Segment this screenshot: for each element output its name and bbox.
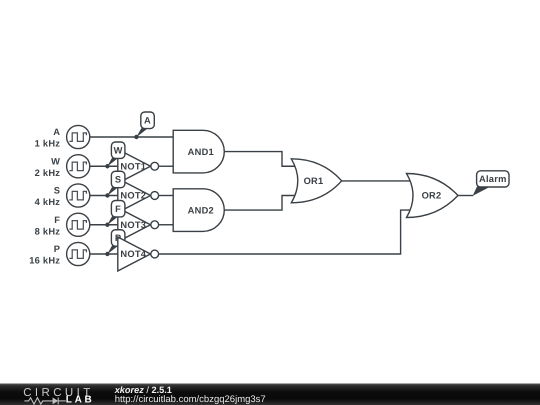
svg-text:S: S (115, 175, 121, 185)
svg-text:A: A (144, 116, 151, 126)
bubble NOT3 (151, 221, 159, 229)
wire P row (90, 253, 118, 255)
wire NOT3 out (159, 224, 174, 226)
svg-text:OR2: OR2 (422, 191, 442, 201)
svg-text:W: W (51, 156, 60, 166)
svg-text:NOT3: NOT3 (120, 220, 146, 230)
svg-text:S: S (54, 186, 60, 196)
flag connector tail Alarm (473, 187, 491, 196)
wire NOT1 out (159, 165, 174, 167)
svg-text:NOT1: NOT1 (120, 161, 146, 171)
junction dot node P (105, 252, 109, 256)
not-gate NOT2 triangle (118, 179, 151, 213)
svg-text:1 kHz: 1 kHz (35, 139, 61, 149)
bubble NOT2 (151, 192, 159, 200)
source V_P circle (67, 242, 90, 265)
svg-text:http://circuitlab.com/cbzgq26j: http://circuitlab.com/cbzgq26jmg3s7 (115, 394, 266, 405)
svg-text:F: F (115, 204, 121, 214)
svg-text:NOT4: NOT4 (120, 249, 146, 259)
waveform glyph S (69, 191, 86, 200)
and-gate AND2 (173, 189, 224, 232)
flag P box (111, 230, 125, 246)
flag A box (141, 112, 155, 129)
svg-text:16 kHz: 16 kHz (29, 256, 60, 266)
junction dot node A (134, 135, 138, 139)
flag W box (111, 142, 125, 158)
wire AND1 out to OR1 (225, 152, 298, 167)
svg-text:F: F (54, 215, 60, 225)
waveform glyph P (69, 250, 86, 259)
flag connector tail W (107, 158, 118, 167)
svg-text:P: P (54, 244, 60, 254)
footer bar (0, 384, 540, 405)
svg-text:NOT2: NOT2 (120, 191, 146, 201)
not-gate NOT4 triangle (118, 237, 151, 271)
svg-text:2 kHz: 2 kHz (35, 168, 61, 178)
wire AND2 out to OR1 (225, 196, 298, 211)
svg-text:AND2: AND2 (188, 205, 214, 215)
waveform glyph F (69, 221, 86, 230)
source V_S circle (67, 184, 90, 207)
and-gate AND1 (173, 130, 224, 173)
svg-text:Alarm: Alarm (479, 174, 507, 184)
svg-text:A: A (53, 127, 60, 137)
or-gate OR2 (407, 174, 459, 218)
wire OR2 out (458, 195, 473, 197)
flag connector tail A (136, 128, 148, 137)
svg-text:P: P (115, 233, 121, 243)
svg-text:LAB: LAB (66, 395, 95, 405)
wire W row (90, 165, 118, 167)
source V_W circle (67, 155, 90, 178)
svg-text:W: W (114, 145, 123, 155)
svg-text:AND1: AND1 (188, 147, 214, 157)
footer logo resistor-diode glyph (24, 398, 65, 405)
flag F box (111, 201, 125, 217)
waveform glyph W (69, 162, 86, 171)
junction dot node S (105, 193, 109, 197)
wire NOT4 out to OR2 (159, 210, 412, 254)
flag Alarm box (477, 171, 509, 187)
junction dot node F (105, 223, 109, 227)
bubble NOT4 (151, 250, 159, 258)
flag connector tail P (107, 246, 118, 255)
junction dot node W (105, 164, 109, 168)
source V_F circle (67, 213, 90, 236)
source V_A circle (67, 125, 90, 148)
bubble NOT1 (151, 162, 159, 170)
flag connector tail S (107, 187, 118, 196)
wire F row (90, 224, 118, 226)
wire A row (90, 136, 174, 138)
not-gate NOT1 triangle (118, 149, 151, 183)
wire S row (90, 195, 118, 197)
flag S box (111, 171, 125, 187)
wire OR1 out to OR2 (341, 180, 412, 182)
not-gate NOT3 triangle (118, 208, 151, 242)
svg-text:OR1: OR1 (304, 176, 324, 186)
svg-text:8 kHz: 8 kHz (35, 226, 61, 236)
or-gate OR1 (291, 159, 341, 203)
waveform glyph A (69, 133, 86, 142)
flag connector tail F (107, 216, 118, 225)
svg-text:4 kHz: 4 kHz (35, 197, 61, 207)
wire NOT2 out (159, 195, 174, 197)
